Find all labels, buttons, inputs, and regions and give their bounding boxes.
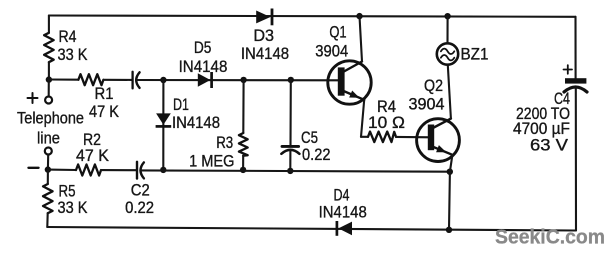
svg-text:Q1: Q1 [329,23,346,42]
wire D1 branch [162,80,164,170]
wire right rail lower [575,88,577,231]
svg-text:IN4148: IN4148 [241,44,289,63]
wire left rail bottom segment [47,170,49,184]
diode D4 [319,186,367,236]
resistor R2 47K [76,130,109,176]
diode D3 [241,9,289,63]
svg-text:C2: C2 [131,181,150,200]
svg-text:47 K: 47 K [76,146,109,165]
svg-text:D1: D1 [173,95,189,114]
transistor Q1 [315,23,371,105]
svg-text:IN4148: IN4148 [319,203,367,222]
svg-text:63 V: 63 V [530,136,569,155]
wire emitter to R4 [361,136,368,138]
wire R1 to C1 [103,79,131,81]
svg-text:10 Ω: 10 Ω [368,113,405,132]
svg-text:SeekiC.com: SeekiC.com [495,227,605,249]
wire BZ1 to top rail [446,16,448,43]
svg-text:0.22: 0.22 [125,198,154,217]
terminal + (open circle) [45,97,52,104]
wire R4 to + node [48,62,50,79]
wire bottom rail [47,227,576,231]
resistor R3 1MEG [189,133,248,170]
wire left rail top segment [48,16,50,33]
svg-text:47 K: 47 K [89,102,119,121]
wire C1 to Q1 base [137,79,342,81]
capacitor C1 (unlabeled) [133,72,140,89]
resistor R4 10ohm [368,97,405,142]
node D1 bottom junction [160,167,166,173]
resistor R4 33K [44,27,87,64]
svg-text:D3: D3 [253,26,274,45]
svg-text:0.22: 0.22 [302,145,331,164]
wire top rail [49,16,576,17]
diode D1 [156,95,220,132]
node BZ1 / top rail junction [444,13,450,19]
node lower rail / Q2 emitter junction [447,169,453,175]
wire right rail upper [574,17,576,79]
svg-text:line: line [37,129,60,148]
plus sign [28,93,38,103]
wire lower mid rail left segment [48,169,76,171]
wire stub from - terminal [47,155,49,170]
node Q1 collector / top rail junction [356,13,362,19]
wire mid rail left segment [49,78,79,80]
node Q2 emitter / bottom rail junction [446,227,452,233]
svg-text:3904: 3904 [315,42,348,61]
wire R2 to C2 [101,169,136,171]
wire R4 to Q2 base [396,136,431,139]
node R3 bottom junction [240,167,246,173]
node D1 top junction [160,77,166,83]
svg-text:R3: R3 [216,133,233,152]
svg-text:R1: R1 [95,84,114,103]
capacitor C4 [513,65,587,154]
node C5 bottom junction [287,168,293,174]
resistor R1 47K [78,74,119,121]
svg-text:Telephone: Telephone [17,109,84,128]
node C5 top junction [288,77,294,83]
wire Q2 emitter to bottom rail [449,155,452,230]
node R3 top junction [240,77,246,83]
svg-text:1 MEG: 1 MEG [189,151,234,170]
terminal - (open circle) [45,148,52,155]
svg-text:33 K: 33 K [58,198,88,217]
transistor Q2 [409,76,460,162]
svg-text:IN4148: IN4148 [179,57,228,76]
node + terminal junction [46,76,52,82]
capacitor C2 [125,162,154,217]
wire Q2 collector to BZ1 [448,65,451,119]
wire C5 branch bottom [289,150,291,171]
capacitor C5 [281,128,330,164]
svg-text:Q2: Q2 [424,76,443,95]
diode D5 [179,38,228,88]
svg-text:R4: R4 [59,27,77,46]
node - terminal junction [45,166,51,172]
wire stub to + terminal [48,80,50,97]
wire C2 to Q2 emitter column [141,170,450,171]
svg-text:3904: 3904 [409,95,445,114]
wire R3 branch top [242,80,244,133]
wire R3 branch bottom [242,156,244,170]
wire Q1 emitter [361,100,364,137]
minus sign [29,167,39,169]
svg-text:D5: D5 [194,38,212,57]
wire C5 branch top [289,80,291,146]
svg-text:IN4148: IN4148 [172,113,220,132]
buzzer BZ1 [437,43,489,64]
resistor R5 33K [43,181,88,217]
svg-text:33 K: 33 K [58,45,88,64]
wire Q1 collector [360,16,363,61]
svg-text:BZ1: BZ1 [461,45,489,64]
wire R5 to bottom rail [46,213,49,227]
